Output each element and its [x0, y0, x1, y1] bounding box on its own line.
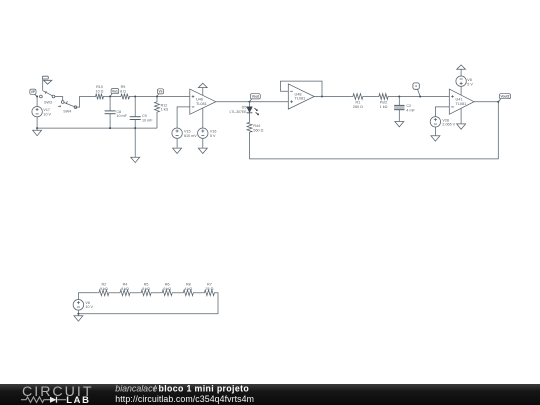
ground below U41	[457, 123, 466, 129]
switch SW3	[40, 95, 43, 98]
node junction C9 bottom	[134, 127, 136, 129]
svg-text:U48: U48	[295, 92, 302, 96]
ground below V16	[198, 148, 207, 154]
voltage source V17	[32, 107, 42, 117]
wire U41 V- down	[460, 108, 462, 123]
svg-text:9 kΩ: 9 kΩ	[163, 287, 171, 291]
svg-text:V6: V6	[85, 301, 90, 305]
wire C9 to ground	[134, 128, 136, 156]
op-amp U48	[288, 84, 314, 109]
wire Vout to U48 plus input	[250, 101, 289, 103]
svg-text:R4: R4	[123, 282, 128, 286]
svg-text:LAB: LAB	[66, 394, 90, 405]
power flag above U46	[198, 83, 207, 95]
wire R5 to next	[153, 292, 161, 294]
svg-text:D5: D5	[242, 105, 247, 109]
wire U46 V- to V16	[202, 108, 204, 128]
svg-text:R5: R5	[144, 282, 149, 286]
svg-text:R44: R44	[253, 124, 260, 128]
node junction Vo1	[109, 96, 111, 98]
svg-text:1 kΩ: 1 kΩ	[380, 105, 388, 109]
node junction Vs	[156, 96, 158, 98]
probe node label	[413, 83, 419, 89]
svg-text:SW3: SW3	[44, 101, 52, 105]
svg-text:R8: R8	[186, 282, 191, 286]
svg-text:bloco 1 mini projeto: bloco 1 mini projeto	[159, 384, 250, 394]
resistor R7	[203, 290, 216, 296]
resistor R1	[351, 94, 364, 100]
svg-text:V15: V15	[184, 130, 191, 134]
svg-text:SW4: SW4	[63, 109, 71, 113]
wire U41 V+ to V8	[460, 86, 462, 95]
svg-text:9 kΩ: 9 kΩ	[142, 287, 150, 291]
voltage source V16	[198, 128, 208, 138]
node junction Vout	[249, 101, 251, 103]
svg-text:10 mF: 10 mF	[142, 119, 153, 123]
wire bottom rail	[37, 127, 157, 129]
svg-text:10 V: 10 V	[43, 112, 51, 116]
svg-text:TL081: TL081	[196, 102, 207, 106]
svg-text:8 Ω: 8 Ω	[120, 89, 126, 93]
node junction U48 feedback	[321, 96, 323, 98]
svg-text:C9: C9	[142, 114, 147, 118]
voltage source V15	[172, 128, 182, 138]
voltage source V6	[73, 300, 84, 311]
wire V28 to ground	[434, 127, 436, 135]
resistor R10	[94, 94, 105, 100]
voltage source V28	[430, 117, 440, 127]
svg-text:R12: R12	[161, 103, 168, 107]
resistor R2	[97, 290, 110, 296]
svg-text:5 V: 5 V	[467, 82, 473, 86]
svg-text:1 kΩ: 1 kΩ	[161, 108, 169, 112]
node junction at V17 top	[36, 96, 38, 98]
wire SW3 to SW4	[55, 97, 63, 101]
wire LED to R44	[249, 113, 251, 121]
svg-text:V16: V16	[210, 130, 217, 134]
svg-text:V8: V8	[467, 78, 472, 82]
resistor R6	[161, 290, 174, 296]
potentiometer Pot2	[377, 94, 390, 100]
svg-text:9 kΩ: 9 kΩ	[121, 287, 129, 291]
wire U41 output	[474, 101, 498, 103]
wire Vout to LED	[249, 102, 251, 107]
wire V17 to ground rail	[36, 117, 38, 128]
wire R10 to R9	[105, 96, 119, 98]
node label Vout2	[499, 94, 510, 99]
wire R1 to Pot2	[365, 96, 378, 98]
resistor R5	[139, 290, 152, 296]
node junction at ground rail	[36, 127, 38, 129]
switch SW4	[61, 101, 64, 104]
svg-text:610 mV: 610 mV	[184, 134, 197, 138]
svg-text:Pot2: Pot2	[380, 101, 388, 105]
svg-text:R9: R9	[121, 85, 126, 89]
resistor R9	[119, 94, 131, 100]
svg-text:R7: R7	[207, 282, 212, 286]
svg-text:V28: V28	[442, 118, 449, 122]
wire SW4 to R10	[77, 97, 94, 108]
wire R8 to next	[195, 292, 203, 294]
capacitor C2	[398, 97, 400, 106]
wire R2 to next	[111, 292, 119, 294]
node label Vout	[250, 94, 260, 99]
wire R44 to feedback rail	[250, 102, 499, 159]
svg-text:TL081: TL081	[295, 97, 306, 101]
svg-text:LTL-307EE: LTL-307EE	[229, 110, 247, 114]
svg-text:http://circuitlab.com/c354q4fv: http://circuitlab.com/c354q4fvrts4m	[115, 394, 254, 404]
svg-text:2.065 V: 2.065 V	[442, 123, 455, 127]
wire V15 to ground	[176, 138, 178, 147]
wire U41 minus input to V28	[435, 107, 449, 117]
svg-text:C8: C8	[116, 110, 121, 114]
ground under V17	[33, 128, 42, 136]
wire V17 to top rail	[36, 97, 38, 107]
wire U46 minus input to V15	[177, 107, 190, 128]
svg-text:76 Ω: 76 Ω	[205, 287, 213, 291]
LED D5	[247, 107, 253, 113]
wire R4 to next	[132, 292, 140, 294]
svg-text:U41: U41	[456, 98, 463, 102]
svg-text:U46: U46	[196, 98, 203, 102]
ground below V6	[74, 314, 83, 321]
svg-text:R6: R6	[165, 282, 170, 286]
node label Vo1	[111, 89, 119, 94]
svg-text:10 mF: 10 mF	[116, 114, 127, 118]
wire V6 to R2	[78, 293, 97, 300]
node junction Vout2	[497, 101, 499, 103]
node junction V6 bottom	[77, 313, 79, 315]
node junction probe stub	[419, 96, 421, 98]
svg-text:biancalace: biancalace	[115, 384, 157, 394]
ground below C9	[131, 156, 140, 163]
wire R6 to next	[174, 292, 182, 294]
svg-text:TL081: TL081	[456, 102, 467, 106]
svg-text:R2: R2	[102, 282, 107, 286]
wire R9 to Vs node	[131, 96, 190, 98]
wire Pot2 to U41 plus input	[390, 96, 450, 98]
wire chain return	[78, 293, 218, 314]
svg-text:Vout2: Vout2	[501, 95, 510, 99]
op-amp U46	[190, 89, 216, 114]
wire V16 to ground	[202, 138, 204, 147]
wire VF stub	[35, 94, 37, 96]
svg-text:Vs: Vs	[158, 90, 162, 94]
node label Vs	[157, 89, 163, 94]
wire U46 output to Vout node	[216, 101, 250, 103]
svg-text:4 kΩ: 4 kΩ	[184, 287, 192, 291]
wire U48 feedback	[281, 81, 323, 96]
resistor R12	[155, 97, 160, 129]
svg-text:C2: C2	[406, 104, 411, 108]
svg-text:Vo1: Vo1	[112, 90, 118, 94]
svg-text:R1: R1	[356, 101, 361, 105]
node junction C2	[398, 96, 400, 98]
CircuitLab logo doodle (resistor + diode)	[21, 397, 50, 403]
svg-text:V17: V17	[43, 108, 50, 112]
resistor R44	[247, 121, 252, 133]
svg-text:VF: VF	[31, 90, 35, 94]
node junction C8 bottom	[109, 127, 111, 129]
svg-text:10 Ω: 10 Ω	[96, 89, 104, 93]
capacitor C8	[109, 97, 111, 111]
voltage source V8	[456, 76, 466, 86]
svg-text:4 mF: 4 mF	[406, 109, 415, 113]
svg-text:260 Ω: 260 Ω	[353, 105, 363, 109]
resistor R8	[182, 290, 195, 296]
op-amp U41	[449, 89, 474, 114]
svg-text:R10: R10	[96, 85, 103, 89]
capacitor C9	[134, 97, 136, 117]
wire U48 output to R1	[314, 96, 351, 98]
ground below V15	[173, 148, 182, 154]
resistor R4	[118, 290, 131, 296]
ground below V28	[431, 135, 440, 141]
node label VF	[30, 89, 36, 94]
svg-text:9 kΩ: 9 kΩ	[100, 287, 108, 291]
ground flag above SW3	[42, 79, 44, 91]
footer bar	[0, 384, 540, 405]
svg-text:5 V: 5 V	[210, 134, 216, 138]
ground below C2	[395, 121, 404, 127]
power flag above V8	[457, 65, 466, 76]
svg-text:Vout: Vout	[252, 95, 260, 99]
svg-text:560 Ω: 560 Ω	[253, 129, 263, 133]
svg-text:10 V: 10 V	[85, 305, 93, 309]
node junction C9 top	[134, 96, 136, 98]
